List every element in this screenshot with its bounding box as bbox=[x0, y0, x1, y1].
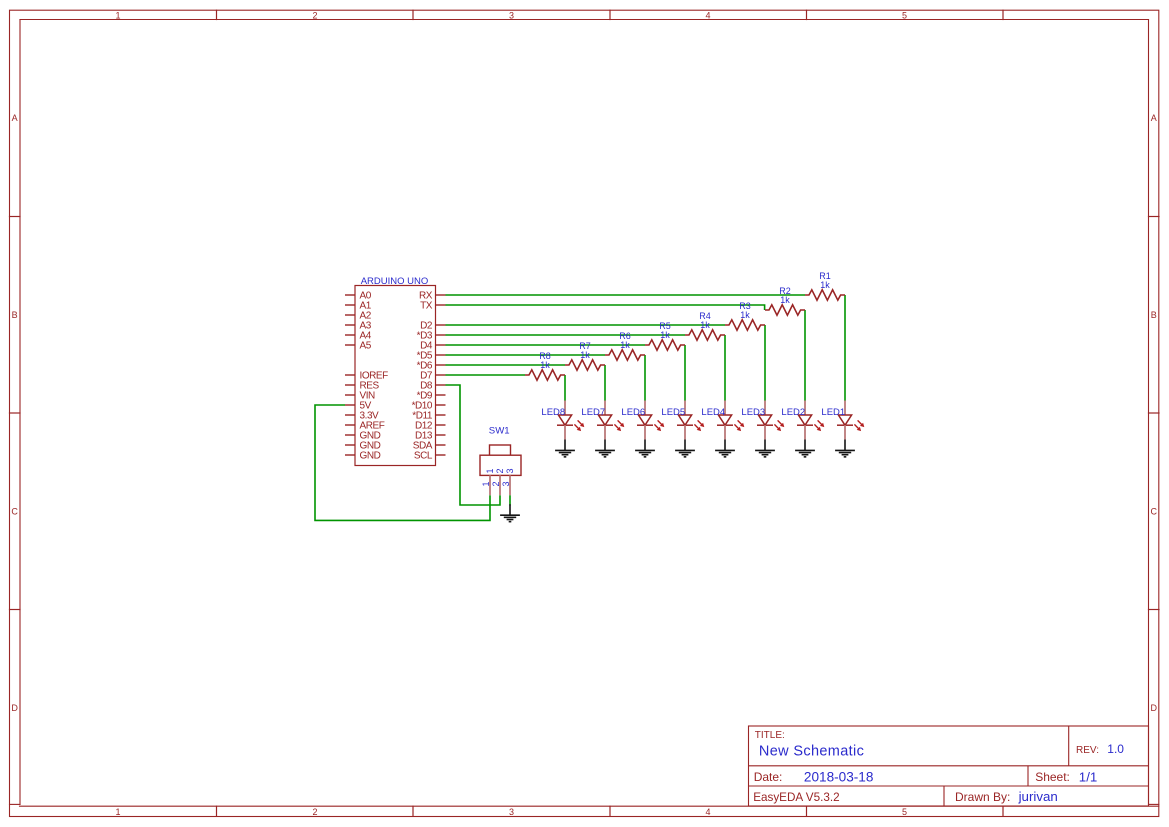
wire D6 bbox=[446, 364, 566, 366]
svg-text:A: A bbox=[1151, 113, 1157, 123]
wire D5 bbox=[446, 354, 606, 356]
svg-text:1: 1 bbox=[115, 807, 120, 817]
svg-text:Date:: Date: bbox=[754, 770, 783, 784]
SW1 pin numbers 1 2 3 bbox=[481, 481, 511, 486]
resistor R8 1k bbox=[525, 351, 565, 380]
svg-text:1/1: 1/1 bbox=[1079, 769, 1098, 784]
svg-text:3: 3 bbox=[509, 10, 514, 20]
svg-text:1k: 1k bbox=[700, 320, 710, 330]
svg-text:LED8: LED8 bbox=[541, 407, 565, 418]
svg-text:A5: A5 bbox=[360, 341, 372, 352]
ground bbox=[835, 440, 855, 457]
ground bbox=[635, 440, 655, 457]
svg-text:LED2: LED2 bbox=[781, 407, 805, 418]
LED LED3 bbox=[741, 401, 784, 440]
svg-text:jurivan: jurivan bbox=[1018, 789, 1058, 804]
svg-text:4: 4 bbox=[705, 10, 710, 20]
ground bbox=[715, 440, 735, 457]
wire R2 to LED2 bbox=[804, 310, 806, 401]
svg-text:1k: 1k bbox=[580, 350, 590, 360]
svg-text:1: 1 bbox=[481, 481, 491, 486]
svg-text:2: 2 bbox=[495, 468, 505, 473]
svg-text:A: A bbox=[12, 113, 18, 123]
wire R4 to LED4 bbox=[724, 335, 726, 401]
svg-text:LED4: LED4 bbox=[701, 407, 725, 418]
svg-text:B: B bbox=[12, 310, 18, 320]
wire D7 bbox=[446, 374, 526, 376]
svg-text:1k: 1k bbox=[540, 360, 550, 370]
resistor R6 1k bbox=[605, 331, 645, 360]
LED LED7 bbox=[581, 401, 624, 440]
svg-text:TX: TX bbox=[420, 301, 433, 312]
svg-text:5: 5 bbox=[902, 10, 907, 20]
svg-text:GND: GND bbox=[360, 451, 381, 462]
svg-text:LED3: LED3 bbox=[741, 407, 765, 418]
svg-text:1k: 1k bbox=[740, 310, 750, 320]
svg-text:3: 3 bbox=[505, 468, 515, 473]
svg-text:REV:: REV: bbox=[1076, 745, 1099, 756]
ground bbox=[795, 440, 815, 457]
SW1 pin names 1 2 3 bbox=[485, 468, 515, 473]
svg-text:1k: 1k bbox=[660, 330, 670, 340]
wire D4 bbox=[446, 344, 646, 346]
wire D2 bbox=[446, 324, 726, 326]
svg-text:C: C bbox=[1151, 506, 1158, 516]
wire SW1 pin3 to ground bbox=[509, 495, 511, 505]
resistor R4 1k bbox=[685, 311, 725, 340]
wire D8 to SW1 pin2 bbox=[446, 385, 501, 505]
resistor R1 1k bbox=[805, 271, 845, 300]
wire R3 to LED3 bbox=[764, 325, 766, 401]
svg-text:TITLE:: TITLE: bbox=[755, 730, 785, 741]
svg-text:4: 4 bbox=[705, 807, 710, 817]
LED LED5 bbox=[661, 401, 704, 440]
svg-text:D: D bbox=[11, 703, 18, 713]
wire R7 to LED7 bbox=[604, 365, 606, 401]
svg-text:D: D bbox=[1151, 703, 1158, 713]
svg-text:2: 2 bbox=[312, 807, 317, 817]
ground bbox=[595, 440, 615, 457]
wire R5 to LED5 bbox=[684, 345, 686, 401]
svg-text:LED7: LED7 bbox=[581, 407, 605, 418]
IC U1 ARDUINO UNO bbox=[345, 276, 446, 466]
LED LED1 bbox=[821, 401, 864, 440]
resistor R7 1k bbox=[565, 341, 605, 370]
svg-text:Sheet:: Sheet: bbox=[1035, 770, 1070, 784]
svg-text:LED6: LED6 bbox=[621, 407, 645, 418]
ground bbox=[555, 440, 575, 457]
svg-text:Drawn By:: Drawn By: bbox=[955, 790, 1010, 804]
svg-text:SW1: SW1 bbox=[489, 425, 510, 436]
LED LED8 bbox=[541, 401, 584, 440]
svg-text:1k: 1k bbox=[620, 340, 630, 350]
svg-text:1.0: 1.0 bbox=[1107, 742, 1124, 756]
svg-text:1: 1 bbox=[115, 10, 120, 20]
svg-text:ARDUINO UNO: ARDUINO UNO bbox=[361, 276, 429, 287]
title block bbox=[749, 726, 1149, 806]
svg-text:EasyEDA V5.3.2: EasyEDA V5.3.2 bbox=[753, 791, 839, 804]
ground bbox=[675, 440, 695, 457]
svg-text:2018-03-18: 2018-03-18 bbox=[804, 770, 874, 785]
wire D3 bbox=[446, 334, 686, 336]
resistor R2 1k bbox=[765, 286, 805, 315]
svg-text:LED1: LED1 bbox=[821, 407, 845, 418]
svg-text:3: 3 bbox=[509, 807, 514, 817]
svg-text:2: 2 bbox=[312, 10, 317, 20]
wire RX bbox=[446, 294, 806, 296]
wire R1 to LED1 bbox=[844, 295, 846, 401]
svg-text:2: 2 bbox=[491, 481, 501, 486]
svg-text:SCL: SCL bbox=[414, 451, 433, 462]
svg-text:B: B bbox=[1151, 310, 1157, 320]
LED LED2 bbox=[781, 401, 824, 440]
resistor R5 1k bbox=[645, 321, 685, 350]
LED LED6 bbox=[621, 401, 664, 440]
wire R6 to LED6 bbox=[644, 355, 646, 401]
svg-text:1: 1 bbox=[485, 468, 495, 473]
ground (SW1 pin3) bbox=[500, 504, 520, 521]
svg-text:5: 5 bbox=[902, 807, 907, 817]
svg-text:C: C bbox=[11, 506, 18, 516]
wire TX bbox=[446, 305, 765, 310]
wire R8 to LED8 bbox=[564, 375, 566, 401]
svg-text:1k: 1k bbox=[820, 280, 830, 290]
switch SW1 bbox=[480, 425, 521, 495]
ground bbox=[755, 440, 775, 457]
svg-text:3: 3 bbox=[501, 481, 511, 486]
resistor R3 1k bbox=[725, 301, 765, 330]
wire 5V to SW1 pin1 bbox=[315, 405, 490, 520]
LED LED4 bbox=[701, 401, 744, 440]
svg-text:LED5: LED5 bbox=[661, 407, 685, 418]
svg-text:1k: 1k bbox=[780, 295, 790, 305]
svg-text:New Schematic: New Schematic bbox=[759, 744, 864, 760]
